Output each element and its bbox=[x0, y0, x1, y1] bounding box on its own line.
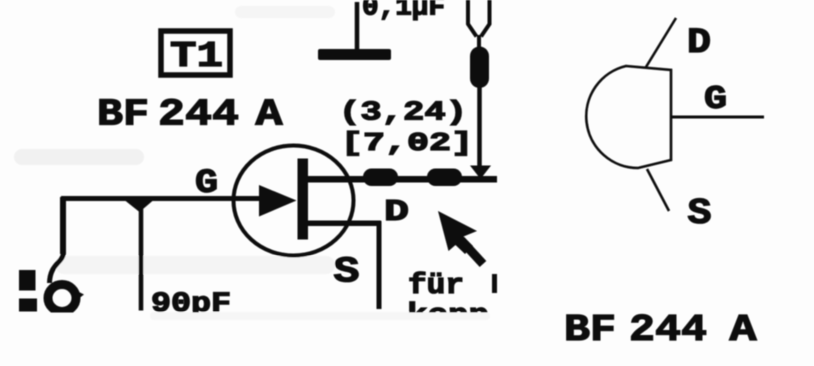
svg-text:A: A bbox=[256, 94, 283, 137]
coil tail bbox=[71, 288, 84, 303]
svg-text:244: 244 bbox=[158, 94, 239, 137]
lead G bbox=[671, 116, 764, 119]
svg-text:0,1µF: 0,1µF bbox=[362, 0, 445, 24]
pointer arrow tail bbox=[461, 240, 483, 264]
svg-text:für: für bbox=[408, 269, 464, 302]
JFET channel bar bbox=[298, 159, 309, 240]
svg-text:D: D bbox=[687, 23, 711, 63]
junction on gate wire bbox=[125, 201, 153, 213]
svg-text:BF: BF bbox=[97, 94, 149, 137]
wire junction down to 90pF capacitor bbox=[139, 201, 144, 311]
svg-text:244: 244 bbox=[629, 309, 707, 352]
svg-text:D: D bbox=[384, 195, 409, 230]
wire resistor to drain node bbox=[477, 86, 482, 168]
svg-text:G: G bbox=[195, 165, 218, 203]
svg-text:S: S bbox=[334, 252, 360, 293]
component outline above resistor (cut at top) bbox=[468, 0, 490, 37]
ferrite bead 1 on drain wire bbox=[363, 169, 398, 187]
wire from capacitor to ground bbox=[355, 2, 360, 51]
ground symbol bbox=[318, 49, 391, 60]
svg-text:BF: BF bbox=[564, 309, 616, 352]
junction node on drain line bbox=[470, 166, 491, 180]
svg-text:(3,24): (3,24) bbox=[339, 99, 467, 129]
wire neck into resistor bbox=[477, 35, 481, 50]
drain wire bbox=[306, 176, 497, 183]
svg-text:A: A bbox=[730, 309, 757, 352]
svg-text:S: S bbox=[688, 193, 712, 234]
wire left end down to coil bbox=[60, 197, 66, 254]
coil / jack loop (cut) bbox=[48, 285, 76, 312]
source wire horizontal bbox=[306, 221, 381, 227]
JFET T1 circle bbox=[234, 146, 354, 256]
source wire vertical (cut at bottom) bbox=[377, 221, 382, 309]
connector block upper (cut at left) bbox=[19, 270, 36, 291]
gate wire bbox=[61, 196, 263, 201]
connector block lower (cut) bbox=[19, 299, 37, 312]
package outline TO-92 bottom view bbox=[586, 66, 671, 168]
lead D bbox=[646, 18, 676, 67]
label box T1 bbox=[161, 31, 230, 75]
resistor R (filled body) bbox=[470, 47, 489, 89]
svg-text:G: G bbox=[704, 81, 727, 118]
pointer arrow head bbox=[438, 211, 477, 254]
JFET gate arrow bbox=[259, 185, 297, 217]
svg-text:[7,02]: [7,02] bbox=[341, 128, 473, 158]
curved wire into coil bbox=[50, 252, 64, 283]
svg-text:T1: T1 bbox=[170, 36, 223, 77]
cut letter after fuer bbox=[492, 274, 497, 293]
lead S bbox=[647, 169, 669, 211]
ferrite bead 2 on drain wire bbox=[427, 169, 462, 187]
